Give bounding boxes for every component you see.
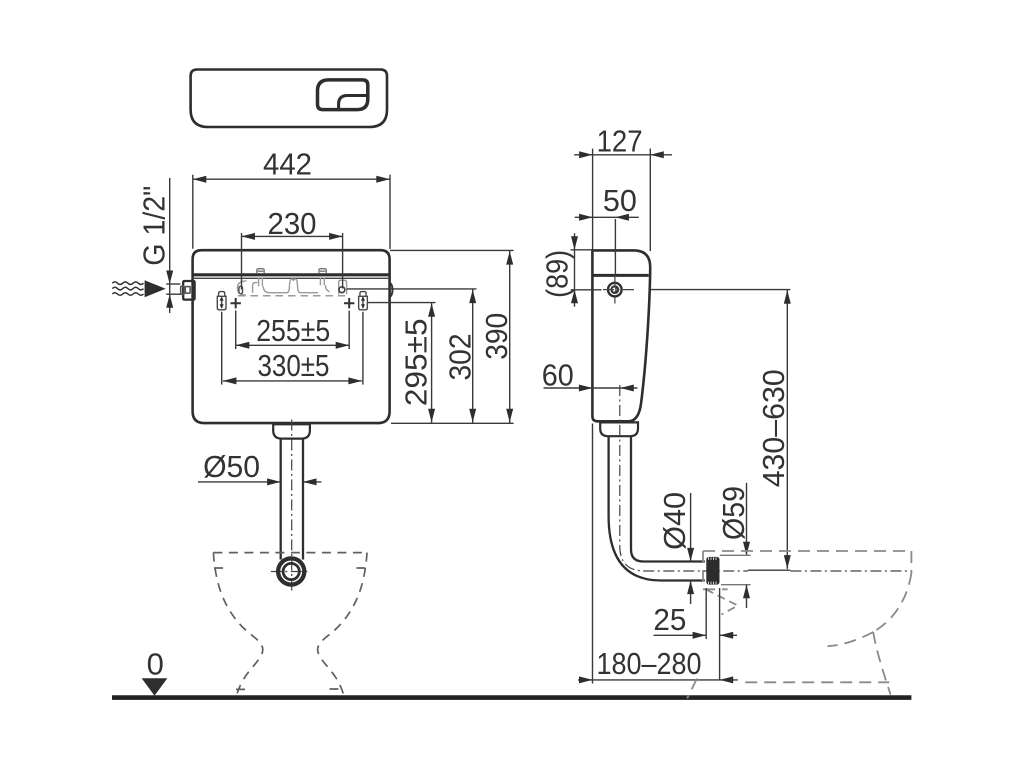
flush pipe (front) xyxy=(280,439,282,560)
pipe connector (front) xyxy=(273,424,310,438)
mechanism right fixing eye xyxy=(339,287,345,293)
mounting slot symbol right xyxy=(359,292,368,310)
lid joint thick line xyxy=(193,273,390,276)
toilet bowl (front, dashed) xyxy=(213,552,367,554)
connector dashed outline xyxy=(703,551,728,589)
pipe centre line (side) xyxy=(620,385,748,571)
svg-text:442: 442 xyxy=(263,147,312,182)
mechanism left fixing pill xyxy=(239,286,243,293)
svg-text:50: 50 xyxy=(603,183,637,218)
svg-text:(89): (89) xyxy=(540,250,575,298)
rubber connector (black) xyxy=(706,557,719,585)
svg-text:25: 25 xyxy=(653,602,686,637)
svg-text:180–280: 180–280 xyxy=(597,646,702,681)
ground line xyxy=(112,695,911,700)
button axis reference line xyxy=(650,289,790,291)
mounting slot symbol left xyxy=(217,292,226,310)
fill valve cap right xyxy=(319,269,326,274)
flush mechanism dashed bottom line xyxy=(238,295,345,297)
flush button outline (top view) xyxy=(318,80,368,110)
pipe centre line xyxy=(291,420,293,592)
svg-text:G 1/2": G 1/2" xyxy=(136,186,171,266)
pipe outlet circle xyxy=(278,558,304,584)
spigot funnel dashes xyxy=(706,590,738,615)
cistern body (side view) xyxy=(592,250,650,421)
flush pipe with elbow (side) xyxy=(609,436,705,580)
datum triangle xyxy=(142,678,168,695)
G 1/2 inlet stub xyxy=(183,281,194,300)
cistern body (front view) xyxy=(193,250,390,423)
svg-text:60: 60 xyxy=(542,358,574,393)
right side reference lines xyxy=(347,288,477,290)
mechanism contour mid xyxy=(263,279,318,293)
cistern lid (top view) xyxy=(191,70,387,128)
lid joint (side) xyxy=(592,274,648,277)
Ø59 extension lines xyxy=(720,554,751,556)
right wall boss bulge xyxy=(390,283,393,298)
fill valve cap left xyxy=(257,269,264,274)
svg-text:0: 0 xyxy=(147,647,164,682)
pipe connector (side) xyxy=(600,422,638,436)
mechanism left hook xyxy=(237,281,246,295)
small flush segment of button xyxy=(339,96,367,110)
mechanism right posts xyxy=(320,278,324,286)
svg-text:330±5: 330±5 xyxy=(258,348,330,383)
toilet (side view, dashed) xyxy=(687,551,911,698)
mechanism left posts xyxy=(259,278,263,287)
lid joint thin line xyxy=(193,277,390,279)
svg-text:295±5: 295±5 xyxy=(398,318,433,406)
water squiggles xyxy=(112,282,143,285)
svg-text:390: 390 xyxy=(479,313,514,360)
svg-text:Ø59: Ø59 xyxy=(716,486,751,540)
svg-text:Ø50: Ø50 xyxy=(203,449,260,484)
cross mark left xyxy=(231,298,241,308)
mechanism right tower xyxy=(339,280,347,294)
inlet height dimension line xyxy=(169,178,171,313)
svg-text:127: 127 xyxy=(597,123,643,158)
mechanism right curve xyxy=(325,285,329,292)
water flow arrow xyxy=(145,280,166,297)
cross mark right xyxy=(344,298,354,308)
flush button (side) xyxy=(608,283,622,297)
svg-text:430–630: 430–630 xyxy=(756,369,791,487)
mechanism step xyxy=(253,283,258,293)
svg-text:Ø40: Ø40 xyxy=(657,492,692,550)
svg-text:255±5: 255±5 xyxy=(256,313,330,348)
